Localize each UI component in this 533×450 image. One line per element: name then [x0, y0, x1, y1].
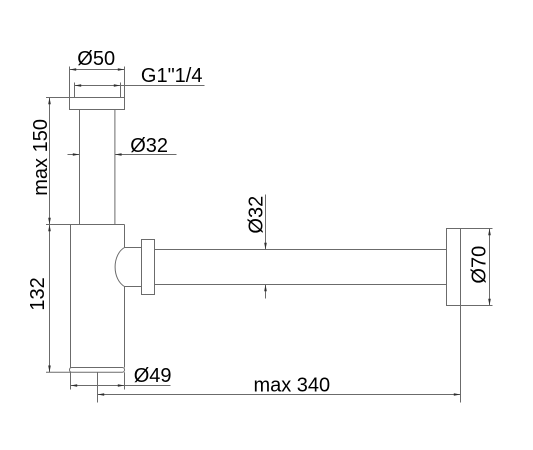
bottom cap (Ø49) [70, 368, 125, 373]
vertical inlet pipe right wall [114, 110, 116, 225]
horizontal outlet pipe top wall [155, 249, 447, 251]
svg-text:Ø70: Ø70 [469, 246, 491, 284]
Ø50 extension line left (flange left edge extended up) [69, 67, 71, 98]
dome to nut connector top [125, 247, 142, 249]
arrowhead Ø49 left [71, 384, 78, 387]
G1"1/4 dimension line with leader to label [75, 85, 205, 87]
arrowhead max340 left [98, 393, 105, 396]
Ø32 dimension right tail [115, 154, 177, 156]
arrowhead Ø32 outlet top (points down) [264, 243, 267, 250]
horizontal outlet pipe bottom wall [155, 284, 447, 286]
arrowhead 132 bottom [48, 366, 51, 373]
svg-text:G1"1/4: G1"1/4 [141, 65, 203, 87]
G1"1/4 thread extension line left [74, 83, 76, 98]
Ø49 extension line right [124, 372, 126, 389]
G1"1/4 thread extension line right [120, 83, 122, 98]
max 340 dimension line [98, 394, 461, 396]
Ø50 dimension line [70, 69, 125, 71]
arrowhead Ø70 top [488, 229, 491, 236]
arrowhead max150 top [48, 98, 51, 105]
max 150 extension line at flange top [46, 97, 70, 99]
arrowhead Ø50 left [70, 68, 77, 71]
compression nut [142, 240, 155, 295]
arrowhead Ø70 bottom [488, 299, 491, 306]
outlet dome cap [115, 248, 124, 287]
arrowhead G1"1/4 left [75, 84, 82, 87]
wall extension line below flange [460, 306, 462, 403]
max 150 dimension line [49, 98, 51, 225]
svg-text:Ø50: Ø50 [77, 48, 115, 70]
arrowhead max150 bottom [48, 218, 51, 225]
bottle body left wall [70, 225, 72, 368]
Ø32 outlet dimension line lower tail [265, 285, 267, 299]
Ø32 dimension left tail [68, 154, 80, 156]
top flange (tailpiece flange) [70, 98, 125, 110]
arrowhead 132 top [48, 225, 51, 232]
svg-text:132: 132 [27, 277, 49, 310]
arrowhead Ø32 left (points right) [73, 153, 80, 156]
svg-text:max 150: max 150 [30, 119, 52, 196]
Ø70 extension line bottom [447, 305, 493, 307]
arrowhead Ø49 right [118, 384, 125, 387]
centre extension line below bottle [97, 372, 99, 402]
arrowhead Ø32 right (points left) [115, 153, 122, 156]
arrowhead Ø32 outlet bottom (points up) [264, 285, 267, 292]
svg-text:Ø32: Ø32 [130, 135, 168, 157]
max 150 / 132 extension line at body top [46, 224, 71, 226]
bottle body right wall upper segment [124, 225, 126, 248]
arrowhead Ø50 right [118, 68, 125, 71]
arrowhead max340 right [454, 393, 461, 396]
Ø70 dimension line [489, 229, 491, 306]
arrowhead G1"1/4 right [114, 84, 121, 87]
vertical inlet pipe left wall [79, 110, 81, 225]
dome to nut connector bottom [125, 286, 142, 288]
132 dimension line [49, 225, 51, 373]
bottle body top line [71, 224, 125, 226]
Ø49 dimension line with right tail [71, 385, 171, 387]
Ø50 extension line right [124, 67, 126, 98]
svg-text:Ø49: Ø49 [134, 365, 172, 387]
Ø32 outlet dimension line upper tail [265, 195, 267, 250]
svg-text:Ø32: Ø32 [246, 196, 268, 234]
svg-text:max 340: max 340 [253, 374, 330, 396]
wall flange [447, 229, 461, 306]
132 bottom extension line [46, 371, 71, 373]
Ø70 extension line top [447, 228, 493, 230]
Ø49 extension line left [70, 372, 72, 389]
bottle body right wall lower segment [124, 287, 126, 368]
